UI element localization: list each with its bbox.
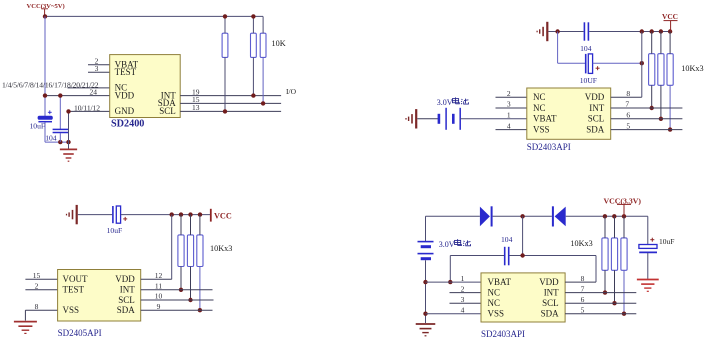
svg-text:INT: INT bbox=[589, 103, 604, 113]
svg-text:10uF: 10uF bbox=[107, 226, 123, 235]
svg-text:3: 3 bbox=[461, 295, 465, 304]
svg-text:10UF: 10UF bbox=[580, 76, 597, 85]
svg-text:5: 5 bbox=[581, 305, 585, 314]
svg-text:104: 104 bbox=[580, 44, 592, 53]
svg-text:SDA: SDA bbox=[586, 124, 605, 134]
svg-text:VDD: VDD bbox=[115, 274, 135, 284]
svg-text:I/O: I/O bbox=[286, 87, 297, 96]
svg-text:1: 1 bbox=[461, 274, 465, 283]
svg-text:1: 1 bbox=[507, 111, 511, 120]
svg-text:SCL: SCL bbox=[159, 106, 176, 116]
svg-text:VCC: VCC bbox=[214, 212, 232, 221]
svg-text:2: 2 bbox=[507, 89, 511, 98]
svg-text:10Kx3: 10Kx3 bbox=[570, 239, 592, 248]
svg-text:VDD: VDD bbox=[539, 277, 559, 287]
svg-text:8: 8 bbox=[35, 302, 39, 311]
svg-text:9: 9 bbox=[157, 302, 161, 311]
svg-text:7: 7 bbox=[581, 284, 585, 293]
svg-text:6: 6 bbox=[581, 295, 585, 304]
svg-text:10uF: 10uF bbox=[659, 237, 674, 246]
svg-text:2: 2 bbox=[461, 284, 465, 293]
svg-text:104: 104 bbox=[501, 235, 513, 244]
svg-text:4: 4 bbox=[507, 121, 511, 130]
svg-text:3.0V: 3.0V bbox=[437, 98, 453, 107]
svg-text:SD2403API: SD2403API bbox=[481, 329, 525, 339]
svg-text:10K: 10K bbox=[272, 39, 286, 48]
svg-text:TEST: TEST bbox=[63, 285, 85, 295]
svg-text:3: 3 bbox=[507, 100, 511, 109]
svg-text:SCL: SCL bbox=[118, 295, 135, 305]
svg-text:SD2403API: SD2403API bbox=[527, 142, 571, 152]
svg-text:VSS: VSS bbox=[533, 124, 550, 134]
svg-text:VSS: VSS bbox=[488, 309, 505, 319]
svg-text:SDA: SDA bbox=[117, 305, 136, 315]
svg-text:11: 11 bbox=[155, 282, 162, 291]
svg-text:INT: INT bbox=[120, 285, 135, 295]
svg-text:VOUT: VOUT bbox=[63, 274, 88, 284]
svg-text:TEST: TEST bbox=[115, 67, 137, 77]
svg-text:INT: INT bbox=[544, 287, 559, 297]
svg-text:10: 10 bbox=[155, 292, 163, 301]
svg-text:4: 4 bbox=[461, 305, 465, 314]
svg-text:2: 2 bbox=[35, 282, 39, 291]
svg-text:104: 104 bbox=[45, 133, 57, 142]
svg-text:24: 24 bbox=[89, 87, 97, 96]
svg-text:3: 3 bbox=[95, 64, 99, 73]
svg-text:1/4/5/6/7/8/14/16/17/18/20/21/: 1/4/5/6/7/8/14/16/17/18/20/21/22 bbox=[2, 80, 99, 89]
svg-text:NC: NC bbox=[533, 103, 546, 113]
svg-text:SD2400: SD2400 bbox=[111, 119, 144, 130]
svg-text:13: 13 bbox=[192, 103, 200, 112]
svg-text:SCL: SCL bbox=[588, 114, 605, 124]
svg-text:10uF: 10uF bbox=[30, 122, 46, 131]
svg-text:VCC: VCC bbox=[662, 12, 678, 21]
svg-text:VSS: VSS bbox=[63, 305, 80, 315]
svg-text:NC: NC bbox=[533, 92, 546, 102]
svg-text:GND: GND bbox=[115, 106, 135, 116]
svg-text:7: 7 bbox=[625, 100, 629, 109]
svg-text:10/11/12: 10/11/12 bbox=[74, 103, 100, 112]
svg-text:15: 15 bbox=[33, 271, 41, 280]
svg-text:VDD: VDD bbox=[585, 92, 605, 102]
svg-text:SCL: SCL bbox=[542, 298, 559, 308]
svg-text:8: 8 bbox=[626, 89, 630, 98]
svg-text:6: 6 bbox=[626, 111, 630, 120]
svg-text:3.0V: 3.0V bbox=[439, 240, 455, 249]
svg-text:SD2405API: SD2405API bbox=[58, 328, 102, 338]
svg-text:NC: NC bbox=[488, 287, 501, 297]
svg-text:VBAT: VBAT bbox=[533, 114, 557, 124]
svg-text:SDA: SDA bbox=[541, 309, 560, 319]
svg-text:8: 8 bbox=[581, 274, 585, 283]
svg-text:VBAT: VBAT bbox=[488, 277, 512, 287]
svg-text:10Kx3: 10Kx3 bbox=[210, 244, 232, 253]
svg-text:VDD: VDD bbox=[115, 90, 135, 100]
svg-text:10Kx3: 10Kx3 bbox=[681, 64, 703, 73]
svg-text:12: 12 bbox=[155, 271, 163, 280]
svg-text:5: 5 bbox=[626, 121, 630, 130]
svg-text:NC: NC bbox=[488, 298, 501, 308]
